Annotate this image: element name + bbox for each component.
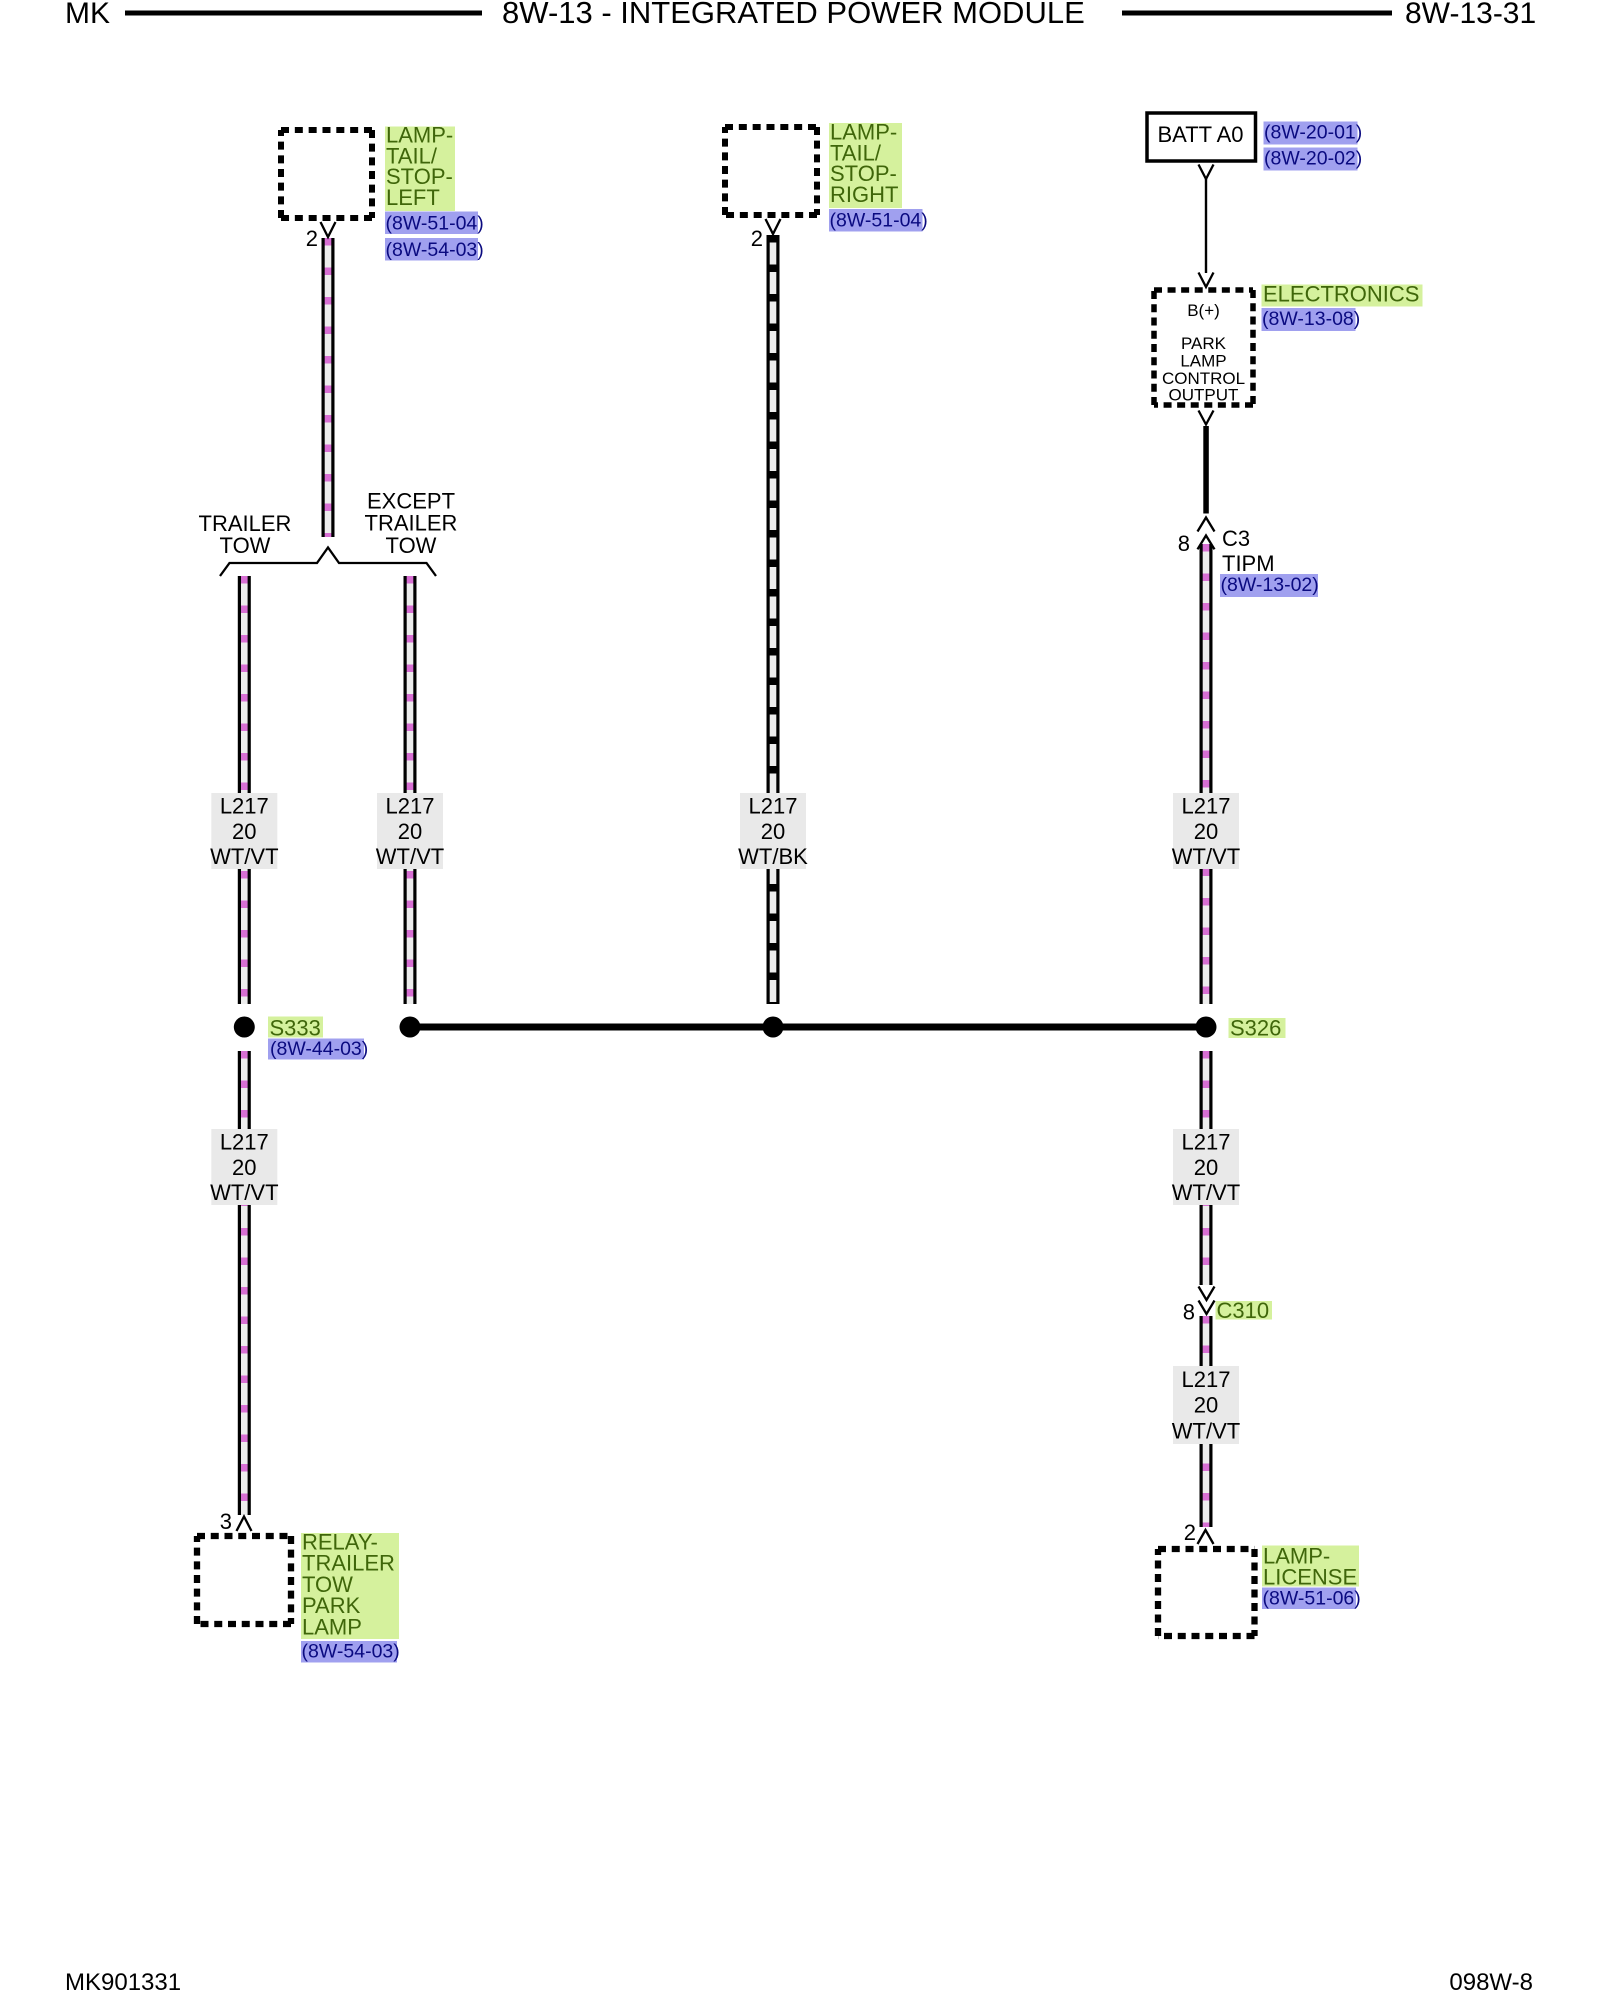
reference (8W-13-08): [1262, 308, 1361, 331]
reference (8W-54-03) at lamp-tail/stop-left: [385, 238, 484, 261]
arrow into wire at lamp-tail/stop-left: [321, 222, 336, 237]
wire label L217 20 WT/VT (below S333): [210, 1129, 278, 1205]
arrow below TIPM electronics: [1199, 411, 1214, 425]
svg-text:8: 8: [1178, 531, 1190, 556]
svg-text:(8W-51-04): (8W-51-04): [386, 213, 484, 235]
junction at WT/BK wire: [763, 1017, 784, 1038]
wire label L217 20 WT/BK: [738, 793, 808, 869]
header rule right: [1122, 11, 1392, 16]
wire BATT A0 to TIPM electronics: [1205, 179, 1207, 273]
wire label L217 20 WT/VT (below C310): [1172, 1366, 1240, 1444]
node label C310: [1216, 1298, 1273, 1323]
arrow below BATT A0: [1199, 165, 1214, 180]
reference (8W-51-04) at lamp-tail/stop-left: [385, 212, 484, 235]
svg-text:(8W-13-02): (8W-13-02): [1221, 574, 1319, 596]
svg-text:LAMP-TAIL/STOP-RIGHT: LAMP-TAIL/STOP-RIGHT: [830, 120, 898, 207]
arrow into lamp-license: [1198, 1530, 1214, 1544]
arrow into wire at lamp-tail/stop-right: [766, 219, 781, 234]
wire label L217 20 WT/VT (TIPM feed): [1172, 793, 1240, 869]
wire L217 20 WT/VT trailer tow branch: [238, 576, 251, 1004]
arrow into relay-trailer tow park lamp: [237, 1517, 252, 1532]
connector lamp-tail/stop-right dashed box: [725, 127, 817, 215]
reference (8W-51-06) at lamp-license: [1262, 1588, 1361, 1610]
label RELAY-TRAILER TOW PARK LAMP: [301, 1530, 399, 1640]
connector lamp-license dashed box: [1158, 1549, 1255, 1636]
connector lamp-tail/stop-left dashed box: [281, 130, 372, 218]
svg-text:(8W-51-06): (8W-51-06): [1263, 1588, 1361, 1610]
svg-text:2: 2: [751, 226, 763, 251]
svg-text:8W-13-31: 8W-13-31: [1405, 0, 1536, 30]
wire L217 20 WT/VT except trailer tow branch: [404, 576, 417, 1004]
svg-text:3: 3: [220, 1509, 232, 1534]
bus wire S333 row: [410, 1024, 1206, 1031]
svg-text:2: 2: [1184, 1520, 1196, 1545]
svg-text:(8W-54-03): (8W-54-03): [386, 239, 484, 261]
node label S333: [268, 1016, 323, 1041]
connector TIPM electronics dashed box: [1154, 290, 1253, 405]
wire label L217 20 WT/VT (below S326): [1172, 1129, 1240, 1205]
svg-text:(8W-44-03): (8W-44-03): [270, 1038, 368, 1060]
wire label L217 20 WT/VT (except trailer tow): [376, 793, 444, 869]
node label S326: [1229, 1016, 1286, 1041]
junction S326: [1196, 1017, 1217, 1038]
reference (8W-44-03) at S333: [268, 1038, 368, 1060]
svg-text:(8W-54-03): (8W-54-03): [302, 1641, 400, 1663]
wire L217 20 WT/VT from S326 to C310: [1200, 1051, 1213, 1285]
reference (8W-54-03) at relay: [301, 1641, 400, 1663]
svg-text:8W-13 - INTEGRATED POWER MODUL: 8W-13 - INTEGRATED POWER MODULE: [502, 0, 1085, 30]
wire L217 20 WT/VT from S333 to relay-trailer tow park lamp: [238, 1051, 251, 1515]
reference (8W-20-01) at BATT A0: [1264, 122, 1363, 145]
header rule left: [125, 11, 482, 16]
brace wire split: [220, 548, 436, 577]
power node BATT A0 box: [1147, 113, 1256, 161]
svg-text:C310: C310: [1217, 1298, 1270, 1323]
label ELECTRONICS: [1262, 282, 1423, 307]
label LAMP-TAIL/STOP-RIGHT: [829, 120, 902, 209]
reference (8W-13-02): [1220, 574, 1319, 597]
heavy feed wire below TIPM electronics: [1203, 426, 1209, 514]
wire L217 20 WT/BK from lamp-tail/stop-right: [767, 235, 780, 1004]
svg-text:8: 8: [1183, 1300, 1195, 1325]
wire L217 20 WT/VT from lamp-tail/stop-left: [322, 238, 335, 537]
svg-text:ELECTRONICS: ELECTRONICS: [1263, 282, 1419, 307]
svg-text:S326: S326: [1230, 1016, 1281, 1041]
arrow into TIPM electronics: [1199, 273, 1214, 288]
svg-text:S333: S333: [270, 1016, 321, 1041]
label LAMP-TAIL/STOP-LEFT: [385, 123, 455, 212]
connector C3 chevrons: [1198, 518, 1215, 550]
svg-text:MK: MK: [65, 0, 110, 30]
connector relay-trailer tow park lamp dashed box: [197, 1536, 291, 1624]
wire label L217 20 WT/VT (trailer tow): [210, 793, 278, 869]
reference (8W-20-02) at BATT A0: [1264, 148, 1363, 171]
svg-text:(8W-13-08): (8W-13-08): [1262, 308, 1360, 330]
svg-text:(8W-20-01): (8W-20-01): [1264, 122, 1362, 144]
svg-text:B(+): B(+): [1187, 301, 1220, 320]
junction at except trailer tow branch: [400, 1017, 421, 1038]
label LAMP-LICENSE: [1262, 1544, 1359, 1590]
junction S333: [234, 1017, 255, 1038]
svg-text:(8W-51-04): (8W-51-04): [830, 210, 928, 232]
svg-text:(8W-20-02): (8W-20-02): [1264, 148, 1362, 170]
svg-text:BATT A0: BATT A0: [1157, 122, 1243, 147]
svg-text:MK901331: MK901331: [65, 1969, 181, 1996]
svg-text:098W-8: 098W-8: [1449, 1969, 1533, 1996]
reference (8W-51-04) at lamp-tail/stop-right: [829, 209, 928, 232]
wire L217 20 WT/VT from TIPM C3 to S326: [1200, 544, 1213, 1004]
connector C310 chevrons: [1199, 1287, 1215, 1315]
svg-text:2: 2: [306, 226, 318, 251]
wire L217 20 WT/VT from C310 to lamp-license: [1200, 1316, 1213, 1527]
